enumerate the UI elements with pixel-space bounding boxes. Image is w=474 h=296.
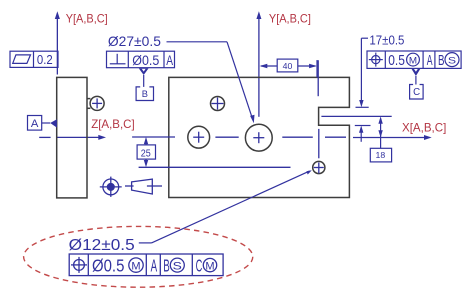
svg-text:S: S — [173, 260, 182, 272]
svg-text:B: B — [142, 89, 148, 100]
svg-text:A: A — [151, 256, 158, 276]
svg-text:C: C — [413, 86, 420, 98]
svg-text:Y[A,B,C]: Y[A,B,C] — [66, 12, 108, 26]
svg-text:M: M — [409, 55, 417, 66]
svg-text:Y[A,B,C]: Y[A,B,C] — [269, 12, 311, 26]
svg-text:A: A — [31, 118, 39, 130]
svg-text:25: 25 — [141, 148, 151, 159]
svg-text:18: 18 — [376, 150, 386, 160]
svg-text:40: 40 — [283, 61, 293, 71]
svg-text:0.5: 0.5 — [388, 52, 405, 69]
svg-text:B: B — [163, 256, 170, 276]
svg-text:A: A — [427, 52, 433, 69]
svg-text:S: S — [448, 55, 456, 66]
svg-text:M: M — [205, 260, 214, 272]
svg-text:Ø0.5: Ø0.5 — [132, 53, 159, 68]
svg-text:Ø0.5: Ø0.5 — [92, 256, 124, 276]
svg-text:X[A,B,C]: X[A,B,C] — [402, 120, 446, 134]
svg-text:Ø12±0.5: Ø12±0.5 — [69, 237, 135, 254]
svg-text:Z[A,B,C]: Z[A,B,C] — [91, 117, 135, 131]
svg-text:17±0.5: 17±0.5 — [369, 32, 404, 47]
svg-text:B: B — [438, 52, 445, 69]
svg-text:C: C — [196, 256, 203, 276]
svg-text:0.2: 0.2 — [37, 52, 53, 67]
svg-text:A: A — [166, 53, 173, 68]
svg-text:Ø27±0.5: Ø27±0.5 — [108, 33, 161, 49]
svg-text:M: M — [131, 260, 140, 272]
